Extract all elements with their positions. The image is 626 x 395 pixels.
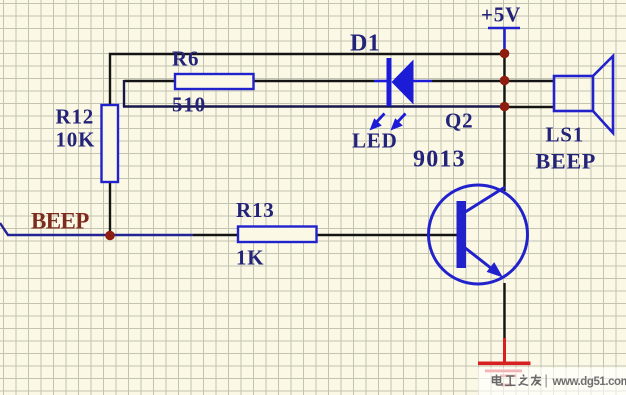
svg-text:9013: 9013 [413, 147, 466, 173]
junction node at middle wire [500, 76, 510, 86]
transistor Q2 [429, 185, 528, 284]
junction node at collector wire [500, 102, 510, 112]
svg-text:R6: R6 [172, 47, 199, 71]
svg-text:D1: D1 [350, 31, 380, 57]
wire diode to +5V node and speaker top terminal [432, 80, 554, 82]
resistor R13 [238, 227, 317, 243]
ground bar 1 [478, 362, 531, 366]
wire speaker bottom terminal [504, 106, 554, 108]
ground bar 3 [500, 375, 517, 378]
wire emitter to ground (red part) [503, 338, 506, 362]
LED emission arrow 2 [391, 114, 406, 131]
svg-text:R12: R12 [56, 105, 95, 129]
svg-text:BEEP: BEEP [536, 149, 597, 174]
wire emitter to ground (black part) [503, 283, 505, 339]
junction node at +5V top [500, 49, 510, 59]
svg-text:1K: 1K [236, 246, 264, 270]
ground bar 2 [485, 370, 522, 373]
diode D1 (LED) [374, 58, 432, 106]
watermark band [478, 368, 626, 395]
svg-text:LED: LED [352, 129, 398, 153]
watermark glyph 友 [531, 375, 541, 386]
svg-text:R13: R13 [236, 198, 275, 222]
junction node BEEP [105, 231, 115, 241]
wire third row to collector node [123, 105, 505, 107]
svg-text:BEEP: BEEP [31, 209, 89, 234]
wire R12 bottom to BEEP junction [109, 182, 111, 236]
ground bar 4 remnant [502, 384, 513, 387]
svg-text:LS1: LS1 [546, 123, 585, 147]
watermark glyph 工 [505, 376, 516, 385]
watermark glyph 电 [493, 375, 503, 386]
svg-text:www.dg51.com: www.dg51.com [552, 376, 626, 388]
svg-text:510: 510 [172, 93, 206, 117]
wire BEEP junction to R13 [193, 234, 238, 236]
power +5V bar symbol [488, 28, 520, 54]
svg-text:10K: 10K [56, 128, 96, 152]
watermark separator [546, 375, 547, 388]
wire top net from R12 to +5V node [110, 54, 505, 105]
wire R6 right to diode [253, 80, 374, 82]
wire R13 to transistor base [316, 234, 458, 236]
watermark glyph 之 [519, 375, 529, 386]
wire BEEP input (blue) [0, 223, 193, 235]
wire R6 row left corner [124, 80, 175, 82]
svg-text:Q2: Q2 [445, 109, 473, 133]
resistor R6 [175, 74, 254, 89]
svg-text:+5V: +5V [481, 3, 521, 27]
wire +5V vertical through nodes to collector [503, 54, 505, 191]
LED emission arrow 1 [370, 114, 385, 131]
speaker LS1 [554, 56, 613, 133]
resistor R12 [102, 105, 119, 182]
